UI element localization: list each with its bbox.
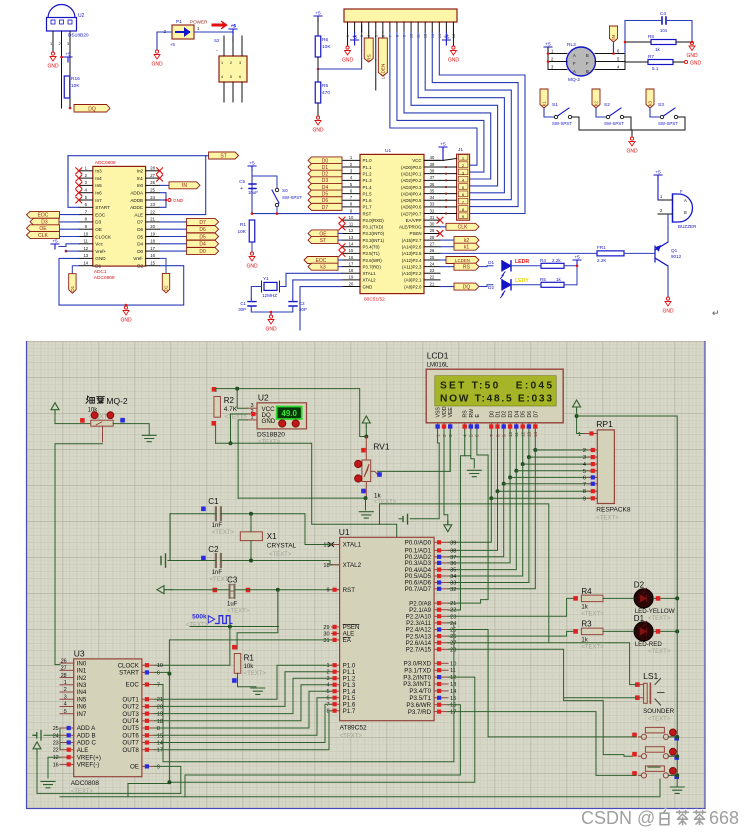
svg-text:OUT2: OUT2 <box>122 704 139 711</box>
svg-text:28: 28 <box>430 235 435 240</box>
svg-text:+5: +5 <box>315 11 321 17</box>
svg-text:10K: 10K <box>322 44 331 50</box>
svg-text:F: F <box>586 61 589 66</box>
svg-text:IN3: IN3 <box>77 682 87 689</box>
svg-text:OUT1: OUT1 <box>122 696 139 703</box>
svg-text:22: 22 <box>430 275 435 280</box>
svg-text:+5: +5 <box>52 239 58 245</box>
svg-text:ST: ST <box>320 238 326 244</box>
svg-text:23: 23 <box>150 202 155 207</box>
transistor Q1 9012 <box>655 242 668 266</box>
svg-text:P1: P1 <box>176 19 182 25</box>
wire START vertical long <box>128 672 169 783</box>
svg-text:RP1: RP1 <box>596 419 613 429</box>
svg-text:GND: GND <box>151 62 163 68</box>
wire LED k-side from labels <box>479 265 487 268</box>
svg-text:19: 19 <box>150 231 155 236</box>
svg-text:C4: C4 <box>660 11 666 16</box>
svg-text:P3.3(INT1): P3.3(INT1) <box>363 238 385 243</box>
svg-text:D1: D1 <box>488 260 494 265</box>
svg-text:D0: D0 <box>137 249 143 254</box>
svg-text:19: 19 <box>323 543 329 549</box>
svg-text:RS: RS <box>463 410 469 418</box>
svg-text:D0: D0 <box>199 249 206 255</box>
svg-text:R3: R3 <box>581 620 592 629</box>
svg-text:18: 18 <box>157 719 163 725</box>
svg-text:GND: GND <box>363 284 373 289</box>
svg-text:A: A <box>573 53 576 58</box>
wire P2.2 to R4 <box>448 598 574 616</box>
svg-text:3: 3 <box>239 61 241 65</box>
svg-text:36: 36 <box>430 182 435 187</box>
svg-text:10K: 10K <box>237 229 246 235</box>
svg-text:CLK: CLK <box>458 225 468 231</box>
svg-text:P2.7/A15: P2.7/A15 <box>406 647 432 654</box>
svg-text:D4: D4 <box>137 242 143 247</box>
svg-text:20: 20 <box>349 281 354 286</box>
svg-text:38: 38 <box>430 168 435 173</box>
svg-text:20: 20 <box>157 704 163 710</box>
svg-text:X1: X1 <box>267 532 277 541</box>
svg-text:26: 26 <box>150 180 155 185</box>
svg-text:19: 19 <box>157 712 163 718</box>
connector J1 <box>457 154 470 220</box>
wire crystal stubs <box>250 514 252 532</box>
wire DQ net <box>231 414 248 443</box>
svg-text:D2: D2 <box>137 264 143 269</box>
svg-text:RL3: RL3 <box>567 42 576 48</box>
capacitor C5 10uF <box>249 184 256 189</box>
svg-text:D2: D2 <box>502 411 508 418</box>
wire LCD data columns to RP1 and P0 <box>490 430 492 498</box>
svg-text:14: 14 <box>83 261 88 266</box>
U3 IN pins <box>60 662 74 664</box>
svg-text:38: 38 <box>450 548 456 554</box>
svg-text:(A15)P2.7: (A15)P2.7 <box>402 238 422 243</box>
svg-text:1nF: 1nF <box>212 523 223 529</box>
wire header pin3 V0 <box>361 25 363 32</box>
svg-text:13: 13 <box>349 235 354 240</box>
svg-text:1k: 1k <box>374 492 382 499</box>
svg-text:9: 9 <box>583 496 586 502</box>
svg-text:16: 16 <box>349 255 354 260</box>
power +5 buzzer <box>654 175 662 180</box>
svg-text:OE: OE <box>130 764 139 771</box>
svg-text:17: 17 <box>150 246 155 251</box>
wire EOC rail <box>155 623 454 762</box>
svg-text:IN0: IN0 <box>77 660 87 667</box>
svg-text:C3: C3 <box>227 576 238 585</box>
svg-text:15: 15 <box>450 696 456 702</box>
wire base net from P2.5 <box>440 252 597 254</box>
net label CLK right <box>440 226 446 228</box>
wire LS1 bottom path <box>564 698 636 757</box>
wire P2.6 to LS1 top <box>448 643 635 685</box>
svg-text:ADC0808: ADC0808 <box>71 780 100 787</box>
svg-text:In7: In7 <box>95 198 102 203</box>
wire C2 left <box>168 560 216 562</box>
svg-text:(AD4)P0.4: (AD4)P0.4 <box>401 191 422 196</box>
wire RS RW to gnd <box>465 430 471 456</box>
wire +5 distribution rail 505 <box>380 504 549 643</box>
wire DS18B20 pins <box>52 31 54 52</box>
svg-text:ADC1: ADC1 <box>94 269 107 275</box>
svg-text:S2: S2 <box>604 102 610 108</box>
svg-text:14: 14 <box>349 242 354 247</box>
svg-text:(A14)P2.6: (A14)P2.6 <box>402 245 422 250</box>
wire crystal to XTAL1/XTAL2 <box>280 273 343 286</box>
ground ADC left <box>41 781 55 787</box>
svg-text:(A9)P2.1: (A9)P2.1 <box>404 278 422 283</box>
svg-text:P0.7/AD7: P0.7/AD7 <box>405 586 432 593</box>
svg-text:(AD0)P0.0: (AD0)P0.0 <box>401 165 422 170</box>
svg-text:1uF: 1uF <box>227 601 238 607</box>
ADC0809 right pins <box>146 170 160 172</box>
svg-text:In2: In2 <box>137 169 144 174</box>
wire pot to ground <box>113 424 149 436</box>
svg-text:D1: D1 <box>496 411 502 418</box>
svg-text:+5: +5 <box>440 142 446 148</box>
ground GND R7 <box>684 60 687 63</box>
svg-text:4: 4 <box>64 702 67 708</box>
svg-text:30: 30 <box>430 222 435 227</box>
wire bottom rails <box>37 784 181 794</box>
svg-text:31: 31 <box>323 638 329 644</box>
wire P3.2 rail <box>169 677 474 782</box>
capacitor C1 30P <box>248 302 256 306</box>
svg-text:30P: 30P <box>238 307 246 312</box>
svg-text:25: 25 <box>430 255 435 260</box>
wire VDD down to arrow <box>444 430 448 525</box>
svg-text:27: 27 <box>450 641 456 647</box>
power arrow down VDD <box>444 521 452 532</box>
svg-text:C5: C5 <box>239 179 245 184</box>
label 烟雾MQ-2 <box>86 396 104 403</box>
wire VEE column <box>449 430 451 471</box>
svg-text:In0: In0 <box>137 183 144 188</box>
svg-text:7: 7 <box>583 482 586 488</box>
wire ALE to right <box>160 156 206 215</box>
svg-text:39: 39 <box>450 540 456 546</box>
svg-text:RW: RW <box>469 409 475 418</box>
svg-text:2: 2 <box>64 687 67 693</box>
svg-text:RV1: RV1 <box>373 442 390 452</box>
resistor R2 4.7K <box>214 397 221 418</box>
svg-text:SW-SPST: SW-SPST <box>282 195 302 200</box>
svg-text:P1.6: P1.6 <box>363 198 373 203</box>
svg-text:33: 33 <box>450 581 456 587</box>
svg-text:22: 22 <box>450 608 456 614</box>
ground GND reset <box>249 252 255 261</box>
svg-text:R1: R1 <box>240 222 246 228</box>
connector LCD header <box>344 9 457 22</box>
svg-text:ALE/PROG: ALE/PROG <box>399 225 422 230</box>
wire C4 loop <box>625 21 662 54</box>
svg-text:P3.2(INT0): P3.2(INT0) <box>363 231 385 236</box>
svg-text:24: 24 <box>150 195 155 200</box>
wire collector to GND <box>667 266 669 297</box>
svg-text:U1: U1 <box>385 148 391 154</box>
svg-text:AT89C52: AT89C52 <box>340 725 367 732</box>
svg-text:GND: GND <box>47 64 59 70</box>
wire C2 right to XTAL2 <box>221 561 340 565</box>
svg-text:3: 3 <box>583 455 586 461</box>
node DQ junction <box>69 107 72 110</box>
svg-text:34: 34 <box>430 195 435 200</box>
svg-text:10K: 10K <box>71 83 80 89</box>
wire +5 rail to LED rail <box>577 416 678 598</box>
potentiometer MQ-2 <box>91 420 113 426</box>
svg-text:25: 25 <box>53 726 59 732</box>
svg-text:31: 31 <box>430 215 435 220</box>
wire P0 pins to J1 <box>440 166 457 168</box>
svg-text:U3: U3 <box>74 649 85 659</box>
IC U3 80C51/52 <box>360 154 424 293</box>
svg-text:<TEXT>: <TEXT> <box>71 789 94 795</box>
svg-text:EOC: EOC <box>38 213 49 219</box>
svg-text:21: 21 <box>150 217 155 222</box>
svg-text:23: 23 <box>53 741 59 747</box>
svg-text:(A11)P2.3: (A11)P2.3 <box>402 264 422 269</box>
svg-text:26: 26 <box>450 634 456 640</box>
wire VCC drop to U2 <box>237 389 247 409</box>
svg-text:MQ-2: MQ-2 <box>106 396 128 406</box>
svg-text:(AD7)P0.7: (AD7)P0.7 <box>401 211 422 216</box>
power arrow RV1 <box>362 416 370 427</box>
svg-text:6: 6 <box>157 670 160 676</box>
sensor RL3 MQ-2 <box>567 42 596 83</box>
wire P1 pin1 to +5 rail <box>194 32 233 42</box>
ADC0809 left pins <box>79 170 93 172</box>
svg-text:22: 22 <box>53 748 59 754</box>
svg-text:R7: R7 <box>648 54 654 59</box>
svg-text:<TEXT>: <TEXT> <box>581 612 604 618</box>
svg-text:(AD1)P0.1: (AD1)P0.1 <box>401 171 422 176</box>
svg-text:ADD B: ADD B <box>77 733 96 740</box>
ground GND switches <box>629 137 635 146</box>
svg-text:START: START <box>119 670 139 677</box>
wire ADC left label stubs <box>60 214 79 216</box>
wire R1 to ground <box>238 673 257 687</box>
svg-text:13: 13 <box>450 682 456 688</box>
power arrow left C3 <box>157 586 172 594</box>
svg-text:SW-SPST: SW-SPST <box>604 121 624 126</box>
svg-text:<TEXT>: <TEXT> <box>244 671 267 677</box>
svg-text:VREF(+): VREF(+) <box>77 754 101 761</box>
svg-text:A: A <box>573 69 576 74</box>
svg-text:C1: C1 <box>240 301 246 306</box>
wire header pin5 down <box>375 32 377 60</box>
svg-text:28: 28 <box>61 673 67 679</box>
net label k1 right <box>440 246 454 248</box>
net label k3 vertical <box>646 89 654 108</box>
power +5 R6 <box>314 16 322 21</box>
resistor R1 10k <box>232 645 237 650</box>
power +5 MQ-2 <box>544 47 552 52</box>
svg-text:LS1: LS1 <box>643 671 658 681</box>
svg-text:R16: R16 <box>71 76 80 82</box>
power arrow RP1 <box>573 400 581 411</box>
svg-text:R5: R5 <box>540 277 546 282</box>
svg-text:GND: GND <box>342 58 354 64</box>
svg-text:23: 23 <box>450 614 456 620</box>
svg-text:R5: R5 <box>322 83 328 89</box>
svg-text:In6: In6 <box>95 191 102 196</box>
svg-text:470: 470 <box>322 90 330 96</box>
svg-text:LM016L: LM016L <box>427 363 449 369</box>
net label LCDEN vertical <box>382 32 384 38</box>
svg-text:U2: U2 <box>78 13 85 19</box>
svg-text:ADDB: ADDB <box>130 198 143 203</box>
ground GND header pin1 <box>347 32 349 46</box>
svg-text:ADD C: ADD C <box>77 740 97 747</box>
svg-text:D1: D1 <box>95 264 101 269</box>
svg-text:26: 26 <box>430 248 435 253</box>
svg-text:RST: RST <box>343 587 356 594</box>
wire R2 bottom to DQ rail <box>215 425 217 443</box>
svg-text:D1: D1 <box>70 285 75 291</box>
svg-text:IN7: IN7 <box>77 711 87 718</box>
svg-text:27: 27 <box>430 242 435 247</box>
wire buttons right rail <box>668 736 677 738</box>
svg-text:U1: U1 <box>339 527 350 537</box>
svg-text:EA/VPP: EA/VPP <box>406 218 422 223</box>
svg-text:(A12)P2.4: (A12)P2.4 <box>402 258 422 263</box>
svg-text:5: 5 <box>326 689 329 695</box>
svg-text:668: 668 <box>709 808 739 828</box>
svg-text:OUT5: OUT5 <box>122 725 139 732</box>
net label RS right <box>440 266 454 268</box>
svg-text:12MHZ: 12MHZ <box>262 293 277 298</box>
svg-text:27: 27 <box>61 666 67 672</box>
connector P1 POWER <box>172 25 194 39</box>
wire C3 to RST <box>172 589 230 591</box>
wire MQ-2 right pins <box>595 53 625 55</box>
ADC0809 unconnected pin X marks right <box>157 168 163 174</box>
svg-text:OUT3: OUT3 <box>122 711 139 718</box>
svg-text:9: 9 <box>157 764 160 770</box>
svg-text:ADDA: ADDA <box>130 191 144 196</box>
component S2 jumper block <box>219 56 247 82</box>
wire clock to U3 CLOCK <box>155 627 230 666</box>
wire pot wiper down <box>102 426 104 442</box>
svg-text:34: 34 <box>450 574 456 580</box>
svg-text:Q1: Q1 <box>671 248 678 253</box>
svg-text:10k: 10k <box>244 664 255 670</box>
ground GND R8 <box>689 42 695 51</box>
crystal X1 <box>240 532 262 541</box>
svg-text:CLK: CLK <box>38 233 48 239</box>
svg-text:<TEXT>: <TEXT> <box>212 530 235 536</box>
svg-text:19: 19 <box>349 275 354 280</box>
svg-text:C1: C1 <box>208 497 219 506</box>
svg-text:(AD5)P0.5: (AD5)P0.5 <box>401 198 422 203</box>
svg-text:5: 5 <box>230 75 232 79</box>
svg-text:OUT7: OUT7 <box>122 740 139 747</box>
svg-text:B: B <box>684 210 687 215</box>
svg-text:Vcc: Vcc <box>95 242 103 247</box>
wire START junction <box>155 671 170 673</box>
svg-text:12: 12 <box>450 675 456 681</box>
svg-text:R6: R6 <box>322 37 328 43</box>
svg-text:IN2: IN2 <box>77 675 87 682</box>
power +5 reset <box>248 166 256 171</box>
svg-text:S0: S0 <box>282 188 288 193</box>
svg-text:A: A <box>684 198 687 203</box>
svg-text:1: 1 <box>221 61 223 65</box>
svg-text:28: 28 <box>450 647 456 653</box>
svg-text:P0.0/AD0: P0.0/AD0 <box>405 540 432 547</box>
power arrow MQ2 <box>51 403 59 414</box>
svg-text:LED-RED: LED-RED <box>635 641 663 648</box>
svg-text:P3.4(T0): P3.4(T0) <box>363 245 381 250</box>
svg-text:11: 11 <box>349 222 354 227</box>
svg-text:In1: In1 <box>137 176 144 181</box>
wire MQ-2 output node <box>624 54 626 70</box>
svg-text:5: 5 <box>583 469 586 475</box>
svg-text:D7: D7 <box>322 205 329 211</box>
svg-text:D2: D2 <box>488 285 494 290</box>
svg-text:40: 40 <box>430 155 435 160</box>
svg-text:GND: GND <box>690 61 702 67</box>
svg-text:ADD A: ADD A <box>77 725 96 732</box>
wire VSS to cell symbol <box>437 430 439 443</box>
svg-text:80C51/52: 80C51/52 <box>364 297 385 303</box>
svg-text:R1: R1 <box>244 654 255 663</box>
svg-text:C2: C2 <box>208 545 219 554</box>
svg-text:26: 26 <box>61 658 67 664</box>
ground buttons rail <box>670 787 684 793</box>
svg-text:k3: k3 <box>648 101 653 106</box>
svg-text:7: 7 <box>326 702 329 708</box>
svg-text:Y1: Y1 <box>263 276 269 281</box>
ground GND crystal <box>268 315 274 324</box>
svg-text:15: 15 <box>349 248 354 253</box>
svg-text:SW-SPST: SW-SPST <box>552 121 572 126</box>
svg-text:<TEXT>: <TEXT> <box>648 649 671 655</box>
U1 right pins P2 <box>434 602 448 604</box>
svg-text:LCDEN: LCDEN <box>380 64 385 80</box>
svg-text:LEDY: LEDY <box>515 278 529 284</box>
svg-text:1: 1 <box>578 432 581 438</box>
svg-text:2.2k: 2.2k <box>552 258 561 263</box>
svg-text:<TEXT>: <TEXT> <box>258 440 281 446</box>
svg-text:+5: +5 <box>574 255 580 261</box>
svg-text:11: 11 <box>84 239 89 244</box>
LED D1 LEDR <box>501 261 512 279</box>
svg-text:VEE: VEE <box>448 407 454 418</box>
svg-text:CLOCK: CLOCK <box>95 234 112 239</box>
svg-text:XTAL2: XTAL2 <box>363 278 377 283</box>
svg-text:3: 3 <box>64 694 67 700</box>
svg-text:11: 11 <box>450 668 456 674</box>
svg-text:P3.5(T1): P3.5(T1) <box>363 251 381 256</box>
net label k2 right <box>440 239 454 241</box>
svg-text:VSS: VSS <box>436 407 442 418</box>
svg-text:4: 4 <box>221 75 223 79</box>
svg-text:10: 10 <box>83 231 88 236</box>
svg-text:32: 32 <box>450 587 456 593</box>
wire C1 left rail <box>170 513 216 515</box>
svg-text:CSDN @: CSDN @ <box>581 808 655 828</box>
svg-text:IN1: IN1 <box>77 668 87 675</box>
wire junction to LCD V0 pin <box>318 25 362 69</box>
svg-text:VCC: VCC <box>412 158 421 163</box>
svg-text:GND: GND <box>448 58 460 64</box>
svg-text:In3: In3 <box>95 169 102 174</box>
svg-text:GND: GND <box>686 53 698 59</box>
resistor R6 10K <box>317 18 319 36</box>
